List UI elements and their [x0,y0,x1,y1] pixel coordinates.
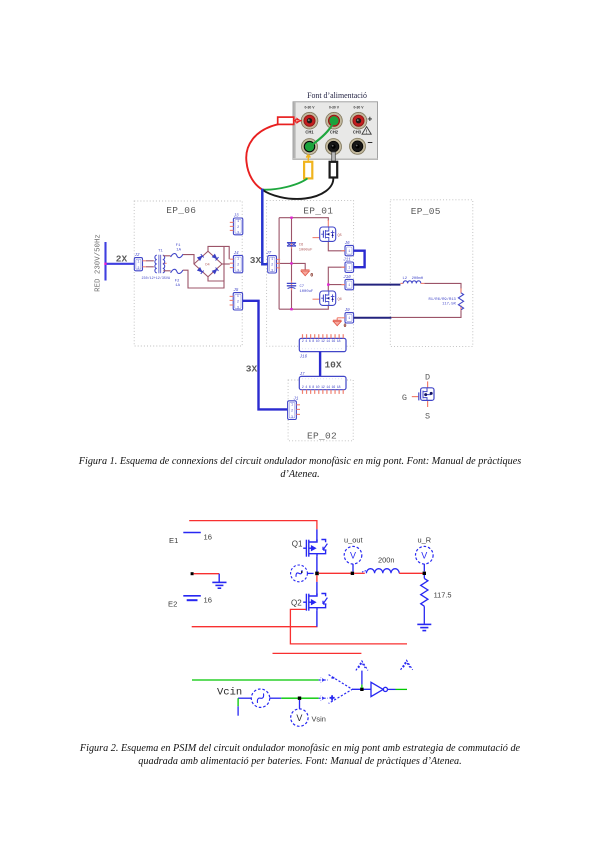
black plug below CH2 [330,152,338,178]
yellow plug below CH1 [304,155,312,179]
Vcin source [217,687,319,716]
connector JT [266,252,280,273]
voltmeter u_out [344,535,363,571]
green cable from yellow plug to junction [262,178,307,189]
transistor Q5 [320,227,342,241]
Vsin junction dot [298,697,301,700]
salmon stubs EP_01 [292,220,329,299]
green jumper cable CH2 to CH1 [310,121,335,147]
NOT output green [396,688,408,690]
mid ground [191,572,227,588]
block border EP_05 [390,200,473,347]
fuse F2 [163,269,183,288]
blue wire J5 to EP_02 connector (3X) [243,301,288,410]
NOT gate [371,682,396,696]
pin header J16 [299,334,346,359]
capacitor C7 [287,283,314,294]
gate drive line 2 [273,652,362,654]
battery E1 [169,533,212,546]
Q2 source to rail [316,610,318,626]
svg-text:Vcin: Vcin [217,687,242,699]
junction to Q2 [316,575,318,582]
inductor L2 [400,277,424,283]
battery E2 [168,596,212,609]
svg-text:117.5: 117.5 [434,590,452,599]
svg-text:E2: E2 [168,600,177,609]
EP_06 wiring maroon [183,246,230,288]
Q2 gate drive red [290,609,407,644]
connector J9 [341,309,353,323]
ground 0 (J9) [333,318,347,329]
block border EP_06 [134,201,242,346]
connector J1 [288,397,300,419]
fig2 bottom rail [192,626,318,628]
svg-text:V: V [296,713,302,723]
Q1 source to junction [316,556,318,573]
EP_05 load wiring [391,283,461,317]
transistor Q6 [320,291,342,305]
comparator output junction [352,688,371,690]
red jack CH3 [350,112,367,129]
svg-text:16: 16 [204,533,212,542]
connector J4 [230,252,243,273]
u_out junction dot [351,572,354,575]
green control line 1 [192,679,319,681]
voltmeter u_R [416,535,434,571]
load ground [417,624,431,630]
transistor Q2 [303,594,327,611]
caption figure 2 [0,742,600,768]
load resistor 117.5 [421,575,452,624]
svg-text:u_out: u_out [344,535,363,544]
svg-text:+: + [330,694,335,703]
midpoint junction dot [315,572,319,576]
svg-text:u_R: u_R [418,535,432,544]
EP_01 wiring maroon [277,218,345,310]
current probe circle [291,565,314,582]
mains bus RED 230V/50Hz [104,242,134,281]
connector J11 [341,259,353,273]
transistor Q1 [303,540,327,557]
connector J6 [341,242,353,256]
resistor R1/R6/R9/R13 [428,293,463,310]
connector J10 [341,276,353,290]
on-off controller 1 [356,661,368,688]
caption figure 1 [0,455,600,481]
ground 0 (EP_01 mid) [301,270,313,279]
inductor 200n [354,556,424,574]
red banana plug at CH1 [278,117,302,124]
fig2 top rail [189,521,317,530]
connector J5 [230,289,243,311]
black cable from black plug to junction [262,178,333,199]
svg-text:200n: 200n [378,556,394,565]
warning triangle [362,127,371,136]
green dot CH2 [329,116,338,125]
transformer T1 [142,249,171,281]
junction dots EP_01 (magenta) [290,217,329,311]
svg-text:E1: E1 [169,536,178,545]
blue jumper J6-J11 [354,251,365,268]
black jack CH2 [326,139,342,155]
svg-text:Vsin: Vsin [312,714,326,723]
svg-text:-: - [332,675,335,682]
voltmeter Vsin [291,700,326,726]
svg-text:Q1: Q1 [292,539,303,548]
navy link J10 to L2 [354,284,401,286]
green dot CH1 black [305,142,314,151]
on-off controller 2 [401,660,413,669]
black jack CH3 [350,138,366,154]
black jack CH1 [302,139,318,155]
svg-text:V: V [421,551,427,561]
navy link J9 to EP_05 [354,317,392,319]
red jack CH1 [301,112,318,129]
svg-text:16: 16 [204,596,212,605]
mosfet legend symbol [412,381,434,407]
power supply panel body [293,102,378,160]
u_R junction dot [423,572,426,575]
blue wire 10X [319,352,321,377]
blue cable junction to JT [262,189,268,265]
connector J3 [230,214,243,235]
red jack CH2 [326,112,343,129]
Q1 drain wire [316,529,318,541]
block border EP_02 [288,380,353,441]
block border EP_01 [267,200,354,346]
pin header J7 [299,373,346,394]
midpoint red wire to u_out [319,572,353,574]
salmon leads resistor [460,288,462,310]
svg-text:V: V [350,551,356,561]
svg-text:Q2: Q2 [291,599,302,608]
fuse F1 [163,244,183,258]
connector J2 [134,254,146,271]
diode bridge D1 [194,251,222,277]
comparator [319,675,353,704]
capacitor C6 [287,243,313,253]
red cable from plug to junction [246,124,278,189]
